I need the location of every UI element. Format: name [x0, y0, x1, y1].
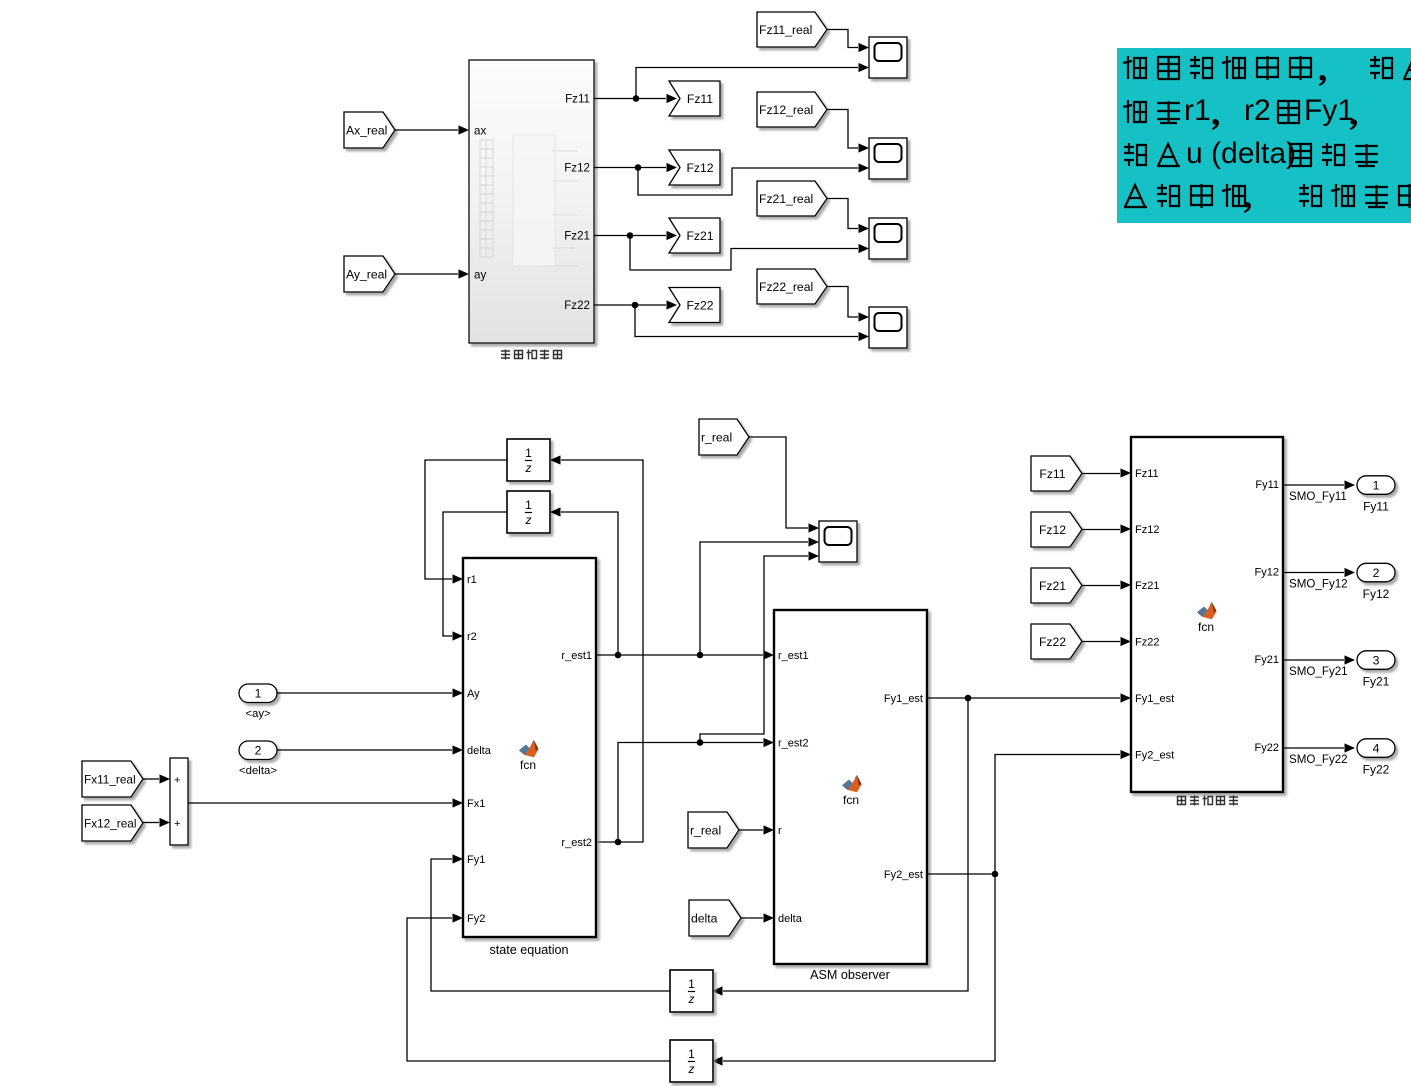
wire sum to Fx1: [188, 802, 452, 804]
svg-text:Fy21: Fy21: [1363, 675, 1390, 689]
svg-text:Fy22: Fy22: [1255, 742, 1279, 754]
svg-text:r_real: r_real: [701, 430, 732, 444]
svg-text:r1: r1: [1184, 94, 1211, 127]
From block From Fz12: [1031, 512, 1082, 547]
svg-text:<delta>: <delta>: [239, 765, 277, 777]
svg-text:1: 1: [688, 1047, 695, 1061]
Outport 4 Fy22: [1357, 739, 1395, 758]
wire Fy1_est feedback to Unit Delay 3: [723, 698, 968, 991]
From block Fx12_real: [82, 805, 143, 841]
svg-text:SMO_Fy21: SMO_Fy21: [1289, 665, 1348, 678]
wire Fz21 branch to scope 3: [630, 236, 858, 271]
wire r_est2 branch to scope 5: [700, 556, 808, 743]
note line2 没有: [1123, 100, 1180, 123]
junction r_est2: [615, 839, 622, 846]
wire r_est1 to Unit Delay 2: [561, 512, 618, 655]
junction Fy2_est: [992, 871, 999, 878]
wire Unit Delay 1 to r1: [425, 460, 507, 579]
svg-text:Fx1: Fx1: [467, 798, 485, 810]
svg-text:Fy11: Fy11: [1255, 479, 1279, 491]
侧向力分配 fcn icon: [1197, 602, 1217, 634]
svg-text:delta: delta: [467, 745, 492, 757]
svg-text:2: 2: [1373, 566, 1380, 580]
svg-text:Fz21: Fz21: [1135, 580, 1159, 592]
wire From Fz12: [1082, 529, 1120, 531]
svg-text:Fz12_real: Fz12_real: [759, 103, 813, 117]
wire Fz12 branch to scope 2: [638, 168, 858, 196]
svg-text:1: 1: [525, 446, 532, 460]
svg-text:Fz22: Fz22: [686, 298, 713, 312]
wire Fz21_real to scope 3: [827, 199, 858, 229]
svg-text:z: z: [688, 992, 695, 1006]
svg-text:Fy2_est: Fy2_est: [1135, 750, 1174, 762]
svg-text:r2: r2: [467, 631, 477, 643]
svg-text:ay: ay: [474, 268, 486, 281]
Unit Delay 3 (1/z): [670, 970, 713, 1012]
wire Unit Delay 4 to Fy2: [407, 918, 670, 1061]
svg-text:delta: delta: [778, 913, 803, 925]
Goto block Fz22: [669, 288, 720, 323]
svg-text:r_est2: r_est2: [778, 738, 809, 750]
From block r_real top: [699, 419, 749, 455]
svg-text:2: 2: [255, 744, 262, 758]
Scope 4: [869, 307, 907, 348]
wire Fz11 branch to scope 1: [636, 68, 858, 99]
wire Fy1_est to 侧向力分配: [927, 697, 1120, 699]
junction Fz22: [632, 302, 639, 309]
Scope 2: [869, 138, 907, 179]
svg-text:r: r: [778, 825, 782, 837]
wire Fz12 output: [594, 167, 666, 169]
svg-text:z: z: [525, 461, 532, 475]
state equation subsystem block: [463, 558, 596, 937]
svg-text:state equation: state equation: [489, 943, 568, 957]
svg-text:Fy1: Fy1: [1304, 94, 1354, 127]
wire Fy2_est feedback to Unit Delay 4: [723, 874, 995, 1061]
wire Fy21 output: [1283, 659, 1344, 661]
junction Fz21: [627, 232, 634, 239]
junction r_est2 b: [697, 739, 704, 746]
wire From Fz21: [1082, 585, 1120, 587]
wire Fy12 output: [1283, 572, 1344, 574]
svg-text:fcn: fcn: [1198, 620, 1214, 634]
From block Ay_real: [344, 256, 395, 292]
svg-text:SMO_Fy11: SMO_Fy11: [1289, 490, 1347, 503]
wire r_est2 to Unit Delay 1: [561, 460, 643, 842]
svg-text:4: 4: [1373, 741, 1380, 755]
note line1 状态: [1370, 56, 1411, 79]
svg-text:+: +: [174, 818, 180, 830]
svg-text:Fz11: Fz11: [1135, 468, 1159, 480]
From block Fz11_real: [757, 12, 827, 47]
svg-text:fcn: fcn: [843, 793, 859, 807]
svg-text:Fz11: Fz11: [687, 92, 713, 106]
teal annotation box (Chinese note): [1117, 48, 1411, 223]
svg-text:Fz12: Fz12: [1135, 524, 1159, 536]
junction r_est1 b: [697, 652, 704, 659]
svg-text:ASM observer: ASM observer: [810, 968, 890, 982]
wire Fz11_real to scope 1: [827, 30, 858, 48]
Scope 1: [869, 37, 907, 78]
sum (Add) block: [170, 758, 188, 845]
svg-text:r_real: r_real: [690, 823, 721, 837]
svg-text:r2: r2: [1244, 94, 1271, 127]
svg-text:Fy12: Fy12: [1363, 587, 1390, 601]
svg-text:r_est1: r_est1: [561, 650, 592, 662]
Inport 2 delta: [239, 741, 277, 760]
svg-text:Fx11_real: Fx11_real: [84, 772, 136, 786]
From block r_real 2: [688, 812, 739, 848]
svg-text:z: z: [688, 1062, 695, 1076]
svg-text:Fz21: Fz21: [1039, 579, 1066, 593]
junction Fz12: [635, 164, 642, 171]
svg-text:Fz12: Fz12: [564, 162, 590, 175]
svg-text:Ay: Ay: [467, 688, 480, 700]
subsystem 垂向力计算 (vertical force calculation): [469, 60, 594, 343]
侧向力分配 subsystem block (lateral force distribution): [1131, 437, 1283, 792]
From block delta: [689, 900, 741, 936]
svg-text:delta: delta: [691, 911, 718, 925]
wire r_est1 to ASM observer: [596, 654, 763, 656]
From block Fx11_real: [82, 761, 143, 797]
From block Fz12_real: [757, 92, 827, 127]
svg-text:3: 3: [1373, 653, 1380, 667]
svg-text:fcn: fcn: [520, 758, 536, 772]
Scope 3: [869, 218, 907, 259]
wire Fy22 output: [1283, 747, 1344, 749]
svg-text:Ay_real: Ay_real: [346, 267, 387, 281]
wire inport 2 to delta: [277, 749, 452, 751]
note line1 滑模观测器中: [1123, 56, 1311, 80]
wire Fy2_est to 侧向力分配: [995, 755, 1120, 875]
state equation fcn icon (MATLAB function): [519, 740, 539, 772]
svg-text:Fy2_est: Fy2_est: [884, 869, 923, 881]
junction Fy1_est: [965, 695, 972, 702]
From block From Fz11: [1031, 456, 1082, 491]
wire r_est2 branch to ASM observer: [618, 743, 763, 843]
svg-text:1: 1: [525, 498, 532, 512]
junction r_est1 a: [615, 652, 622, 659]
junction Fz11: [633, 95, 640, 102]
wire Fz21 output: [594, 235, 666, 237]
svg-text:<ay>: <ay>: [245, 708, 271, 720]
svg-text:Fz11_real: Fz11_real: [759, 23, 812, 37]
svg-text:r1: r1: [467, 574, 477, 586]
wire Fz22 branch to scope 4: [635, 305, 858, 337]
ASM observer fcn icon: [842, 775, 862, 807]
svg-text:r_est2: r_est2: [561, 837, 592, 849]
wire Fy2_est output: [927, 873, 995, 875]
svg-text:1: 1: [1373, 478, 1380, 492]
wire Ay_real to ay: [395, 273, 458, 275]
From block From Fz22: [1031, 624, 1082, 659]
wire Unit Delay 2 to r2: [443, 512, 507, 636]
Outport 2 Fy12: [1357, 563, 1395, 582]
svg-text:Fx12_real: Fx12_real: [84, 816, 136, 830]
wire Fz12_real to scope 2: [827, 110, 858, 149]
wire r_est1 branch to scope 5: [700, 542, 808, 655]
svg-text:z: z: [525, 513, 532, 527]
svg-text:Fy1: Fy1: [467, 854, 485, 866]
From block Fz22_real: [757, 269, 827, 304]
note line2 和: [1277, 101, 1300, 123]
note line4 精度更好: [1299, 184, 1411, 208]
From block Fz21_real: [757, 181, 827, 216]
svg-text:SMO_Fy22: SMO_Fy22: [1289, 753, 1348, 766]
svg-text:Fy11: Fy11: [1363, 500, 1389, 514]
ASM observer subsystem block: [774, 610, 927, 964]
svg-text:Fz21: Fz21: [686, 229, 713, 243]
svg-text:Fz22: Fz22: [1039, 635, 1066, 649]
Inport 1 ay: [239, 684, 277, 703]
svg-text:Fy21: Fy21: [1255, 654, 1279, 666]
From block Ax_real: [344, 112, 395, 148]
svg-text:u (delta): u (delta): [1186, 137, 1296, 170]
svg-text:+: +: [174, 775, 180, 787]
Goto block Fz12: [669, 150, 720, 185]
wire Fx11_real to sum: [143, 778, 159, 780]
Unit Delay 2 (1/z): [507, 491, 550, 533]
From block From Fz21: [1031, 568, 1082, 603]
note line4 反馈之后: [1124, 184, 1245, 208]
wire Unit Delay 3 to Fy1: [431, 859, 670, 991]
svg-text:1: 1: [255, 687, 262, 701]
svg-text:Fz11: Fz11: [565, 93, 590, 106]
svg-text:r_est1: r_est1: [778, 650, 809, 662]
Outport 1 Fy11: [1357, 476, 1395, 495]
Goto block Fz11: [669, 81, 720, 116]
svg-text:1: 1: [688, 977, 695, 991]
svg-text:Fy12: Fy12: [1255, 567, 1279, 579]
svg-text:SMO_Fy12: SMO_Fy12: [1289, 578, 1348, 591]
note line3 输入: [1124, 143, 1180, 166]
svg-text:Fz12: Fz12: [686, 161, 713, 175]
Unit Delay 1 (1/z): [507, 439, 550, 481]
wire Fz22_real to scope 4: [827, 287, 858, 318]
Unit Delay 4 (1/z): [670, 1040, 713, 1082]
wire From Fz22: [1082, 641, 1120, 643]
subsystem name label 垂向力计算: [501, 350, 562, 360]
wire inport 1 to Ay: [277, 692, 452, 694]
svg-text:Fy2: Fy2: [467, 913, 485, 925]
wire r_real to r: [739, 829, 763, 831]
wire r_real to scope 5: [749, 437, 808, 528]
svg-text:Fz22: Fz22: [564, 299, 590, 312]
svg-text:Ax_real: Ax_real: [346, 123, 387, 137]
Goto block Fz21: [669, 218, 720, 253]
wire Fz11 output: [594, 98, 666, 100]
svg-text:Fz22_real: Fz22_real: [759, 280, 813, 294]
wire Fz22 output: [594, 304, 666, 306]
svg-text:Fy1_est: Fy1_est: [884, 693, 923, 705]
svg-text:Fz11: Fz11: [1039, 467, 1065, 481]
svg-text:Fy22: Fy22: [1363, 763, 1390, 777]
svg-text:Fz21: Fz21: [564, 230, 590, 243]
svg-text:Fz21_real: Fz21_real: [759, 192, 813, 206]
侧向力分配 name label: [1178, 796, 1239, 806]
wire Ax_real to ax: [395, 129, 458, 131]
Outport 3 Fy21: [1357, 651, 1395, 670]
wire delta to ASM observer: [741, 917, 763, 919]
svg-text:Fz22: Fz22: [1135, 637, 1159, 649]
svg-text:Fy1_est: Fy1_est: [1135, 693, 1174, 705]
wire Fy11 output: [1283, 484, 1344, 486]
wire Fx12_real to sum: [143, 822, 159, 824]
wire From Fz11: [1082, 473, 1120, 475]
svg-text:ax: ax: [474, 124, 486, 137]
svg-text:Fz12: Fz12: [1039, 523, 1066, 537]
note line3 和输出: [1289, 143, 1378, 166]
Scope 5: [819, 521, 857, 562]
